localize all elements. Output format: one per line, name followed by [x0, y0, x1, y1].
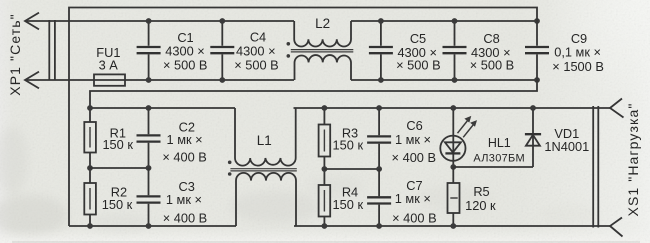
svg-text:1 мк ×: 1 мк ×: [395, 191, 431, 206]
svg-text:150 к: 150 к: [333, 138, 364, 153]
resistor R2: [89, 168, 91, 226]
node C4 top: [219, 18, 225, 24]
svg-text:4300 ×: 4300 ×: [236, 43, 276, 58]
inductor L2 core: [291, 50, 354, 52]
inductor L1 core: [230, 169, 296, 171]
connector XP1 plug arrow top pin: [25, 13, 39, 30]
capacitor C2: [148, 108, 150, 168]
resistor R4: [323, 169, 325, 226]
capacitor C7: [378, 169, 380, 226]
node C5 top: [378, 18, 384, 24]
svg-text:× 400 В: × 400 В: [162, 150, 206, 165]
svg-text:× 500 В: × 500 В: [470, 57, 514, 72]
svg-text:× 400 В: × 400 В: [392, 211, 436, 226]
inductor L2 top winding: [294, 21, 351, 47]
connector XS1 socket fork bottom: [610, 218, 623, 237]
node C3 bottom: [146, 223, 152, 229]
node C8 top: [452, 18, 458, 24]
wire wrap outer top rail: [69, 8, 537, 227]
capacitor C6: [378, 108, 380, 169]
resistor R5: [452, 167, 454, 226]
LED HL1: [452, 108, 454, 167]
connector XP1 mating bars: [49, 20, 55, 81]
connector XP1 plug arrow bottom pin: [25, 72, 39, 89]
connector XS1 mating bars: [593, 106, 598, 228]
svg-text:1N4001: 1N4001: [544, 139, 589, 154]
diode VD1: [532, 108, 534, 167]
wire row2 top rail left segment: [90, 107, 235, 109]
L1 phasing dot bottom: [228, 172, 232, 176]
node C4 bottom: [219, 77, 225, 83]
node R3 top: [322, 105, 328, 111]
svg-text:× 500 В: × 500 В: [163, 57, 207, 72]
HL1 emission arrow 2: [463, 123, 474, 137]
L1 phasing dot top: [228, 161, 232, 165]
wire row2 bottom rail left segment: [69, 225, 236, 227]
node C5 bottom: [378, 77, 384, 83]
svg-text:1 мк ×: 1 мк ×: [166, 192, 202, 207]
svg-text:R5: R5: [473, 184, 489, 199]
HL1 emission arrow 1: [458, 119, 469, 133]
svg-text:L1: L1: [257, 133, 272, 148]
node C1 bottom: [146, 77, 152, 83]
svg-text:C4: C4: [250, 30, 266, 45]
L2 phasing dot top: [287, 42, 291, 46]
wire top rail after L2: [351, 20, 537, 22]
svg-text:× 1500 В: × 1500 В: [552, 59, 604, 74]
svg-text:1 мк ×: 1 мк ×: [395, 132, 431, 147]
svg-text:АЛ307БМ: АЛ307БМ: [473, 152, 525, 164]
svg-text:× 500 В: × 500 В: [234, 57, 278, 72]
inductor L1 top winding: [235, 108, 296, 166]
node R5 bottom: [450, 223, 456, 229]
svg-text:150 к: 150 к: [102, 137, 133, 152]
capacitor C9: [525, 47, 549, 53]
svg-text:3 А: 3 А: [99, 58, 119, 73]
node R1 R2 junction: [87, 165, 93, 171]
node C6 top: [376, 105, 382, 111]
svg-text:HL1: HL1: [488, 136, 511, 150]
node C8 bottom: [452, 77, 458, 83]
node R2 bottom: [87, 223, 93, 229]
wire top input L rail: [26, 20, 295, 22]
svg-text:C8: C8: [483, 31, 499, 46]
capacitor C1: [148, 21, 150, 80]
svg-text:150 к: 150 к: [102, 197, 133, 212]
svg-text:L2: L2: [315, 16, 330, 31]
svg-text:0,1 мк ×: 0,1 мк ×: [554, 45, 601, 60]
wire middle rail right: [324, 168, 379, 170]
node C2 C3 junction: [146, 165, 152, 171]
resistor R1: [89, 108, 91, 168]
svg-text:× 500 В: × 500 В: [396, 57, 440, 72]
svg-text:C6: C6: [406, 118, 422, 133]
svg-text:120 к: 120 к: [465, 198, 496, 213]
node VD1 top: [530, 105, 536, 111]
node HL1 top: [450, 105, 456, 111]
node C9 bottom: [534, 77, 540, 83]
svg-text:C9: C9: [571, 31, 587, 46]
svg-text:150 к: 150 к: [333, 197, 364, 212]
svg-text:1 мк ×: 1 мк ×: [167, 132, 203, 147]
wire bottom input N rail: [26, 79, 295, 81]
svg-text:4300 ×: 4300 ×: [165, 43, 205, 58]
resistor R3: [323, 108, 325, 169]
capacitor C8: [454, 21, 456, 80]
node C9 top: [534, 18, 540, 24]
wire HL1 cathode to VD1: [453, 166, 533, 168]
wire bottom rail after L2: [351, 79, 537, 81]
node R3 R4 junction: [322, 166, 328, 172]
svg-text:× 400 В: × 400 В: [163, 211, 207, 226]
wire middle rail left: [90, 167, 149, 169]
node R4 bottom: [322, 223, 328, 229]
node C7 bottom: [376, 223, 382, 229]
capacitor C3: [148, 168, 150, 226]
svg-text:C5: C5: [410, 31, 426, 46]
fuse FU1: [94, 74, 125, 85]
svg-text:XS1 "Нагрузка": XS1 "Нагрузка": [625, 103, 641, 217]
node C6 C7 junction: [376, 166, 382, 172]
wire wrap right drop to row2: [90, 54, 537, 108]
L2 phasing dot bottom: [287, 54, 291, 58]
node HL1 R5 VD1 junction: [450, 164, 456, 170]
wire row2 top rail right segment: [294, 107, 611, 109]
capacitor C5: [380, 21, 382, 80]
svg-text:× 400 В: × 400 В: [392, 150, 436, 165]
connector XS1 socket fork top: [610, 99, 624, 118]
node C2 top: [146, 105, 152, 111]
wire row2 bottom rail right segment: [294, 225, 610, 227]
svg-text:XP1 "Сеть": XP1 "Сеть": [7, 13, 23, 95]
node C1 top: [146, 18, 152, 24]
inductor L1 bottom winding: [236, 173, 296, 226]
node R1 top: [87, 105, 93, 111]
capacitor C4: [221, 21, 223, 80]
inductor L2 bottom winding: [295, 55, 352, 80]
